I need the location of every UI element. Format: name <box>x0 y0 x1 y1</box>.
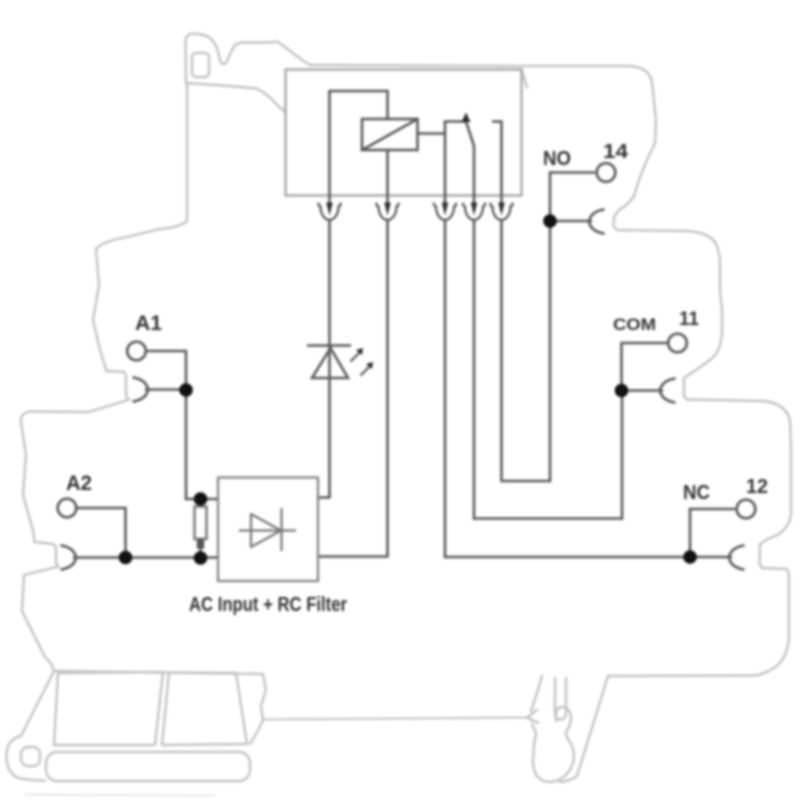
faint bottom shadow line <box>25 795 215 796</box>
node A2 junction <box>119 551 133 565</box>
clamp contact 14 <box>589 210 604 234</box>
resistor lower element <box>197 540 204 549</box>
wire A2 clamp to node <box>74 556 126 559</box>
svg-text:A1: A1 <box>135 312 162 335</box>
wire A1 down to filter <box>186 390 218 499</box>
wire bottom A2 to filter <box>126 556 219 559</box>
svg-text:11: 11 <box>679 309 699 330</box>
diode D1 in filter <box>239 508 296 551</box>
left foot parallelogram 1 <box>54 672 163 745</box>
right edge with NO pocket <box>608 143 791 676</box>
svg-text:AC Input + RC Filter: AC Input + RC Filter <box>189 594 347 616</box>
A1 terminal pocket <box>21 371 129 422</box>
left foot: body bottom edge <box>54 671 263 674</box>
wire LED branch down <box>318 220 330 498</box>
svg-text:NO: NO <box>543 148 571 170</box>
socket cup coil right <box>376 204 398 220</box>
foot right edge <box>250 674 266 744</box>
resistor R <box>195 507 207 540</box>
wire A2 from screw <box>76 508 126 558</box>
clamp contact A2 <box>62 546 77 570</box>
wire A1 clamp to node <box>146 388 186 391</box>
pin arrow contact NC <box>442 203 448 216</box>
node COM junction <box>615 384 629 398</box>
node filter top <box>194 492 208 506</box>
LED emission arrow 2 <box>361 367 369 375</box>
relay coil K1 <box>362 119 418 150</box>
terminal screw 12 <box>737 500 756 519</box>
svg-text:12: 12 <box>746 476 768 498</box>
pin arrow coil left <box>326 203 332 216</box>
right clip slot <box>555 678 566 720</box>
node A1 junction <box>179 383 193 397</box>
socket cup coil left <box>318 204 340 220</box>
bottom-right leg and DIN clip <box>560 676 608 782</box>
wire NO U-loop <box>502 220 551 481</box>
terminal screw 14 <box>597 163 616 182</box>
svg-text:14: 14 <box>603 141 629 163</box>
bay right chamfer notch <box>522 70 528 88</box>
wire coil bottom pin <box>386 150 389 202</box>
LED arrowhead 1 <box>356 348 363 355</box>
terminal screw 11 <box>668 334 687 353</box>
pin arrow contact NO <box>498 203 504 216</box>
socket cup contact COM <box>463 204 485 220</box>
terminal screw A1 <box>127 342 146 361</box>
clamp contact 11 <box>660 379 675 403</box>
mounting claw (top release lever) <box>186 34 311 84</box>
clamp contact 12 <box>729 546 744 570</box>
relay bay rectangle <box>286 70 522 196</box>
rail bottom bar <box>46 752 250 781</box>
contact movable blade <box>466 122 474 203</box>
left edge A2 section <box>21 422 59 671</box>
pin arrow contact COM <box>471 203 477 216</box>
left foot parallelogram 2 <box>162 673 247 746</box>
rail left hook J <box>6 671 54 781</box>
AC input filter box <box>218 478 318 582</box>
contact actuation arrowhead <box>462 113 471 123</box>
node NC junction <box>683 550 697 564</box>
wire coil return down <box>318 220 388 557</box>
DIN rail top line <box>264 718 527 720</box>
terminal screw A2 <box>58 499 77 518</box>
node filter bottom <box>194 551 208 565</box>
LED triangle <box>312 348 348 378</box>
wire resistor to node <box>199 539 202 552</box>
LED emission arrow 1 <box>351 353 359 361</box>
left upper body edge <box>93 84 187 371</box>
rail end fork at right clip <box>527 710 538 723</box>
socket cup contact NO <box>490 204 512 220</box>
wire NC to terminal 12 <box>445 220 688 557</box>
mechanical link coil to contact <box>418 132 446 135</box>
svg-text:NC: NC <box>683 482 710 504</box>
wire coil left pin down <box>328 91 331 202</box>
LED cathode bar <box>308 344 350 347</box>
wire coil loop top <box>330 91 388 119</box>
wire NC terminal 12 riser <box>690 509 734 557</box>
wire COM terminal 11 <box>622 343 667 391</box>
socket cup contact NC <box>434 204 456 220</box>
svg-text:A2: A2 <box>66 472 92 495</box>
contact NC fixed pin <box>445 122 466 203</box>
contact NO fixed pin <box>493 122 502 203</box>
wire COM U-loop <box>474 220 622 519</box>
claw bottom edge to relay bay <box>186 83 285 112</box>
svg-text:COM: COM <box>613 315 656 334</box>
wire NO terminal 14 <box>550 173 594 222</box>
pin arrow coil right <box>384 203 390 216</box>
wire A1 from screw <box>146 351 186 390</box>
housing top edge over relay bay <box>310 65 656 143</box>
claw window hole <box>192 53 209 77</box>
LED arrowhead 2 <box>366 362 373 369</box>
node NO junction <box>543 214 557 228</box>
clamp contact A1 <box>134 378 149 402</box>
